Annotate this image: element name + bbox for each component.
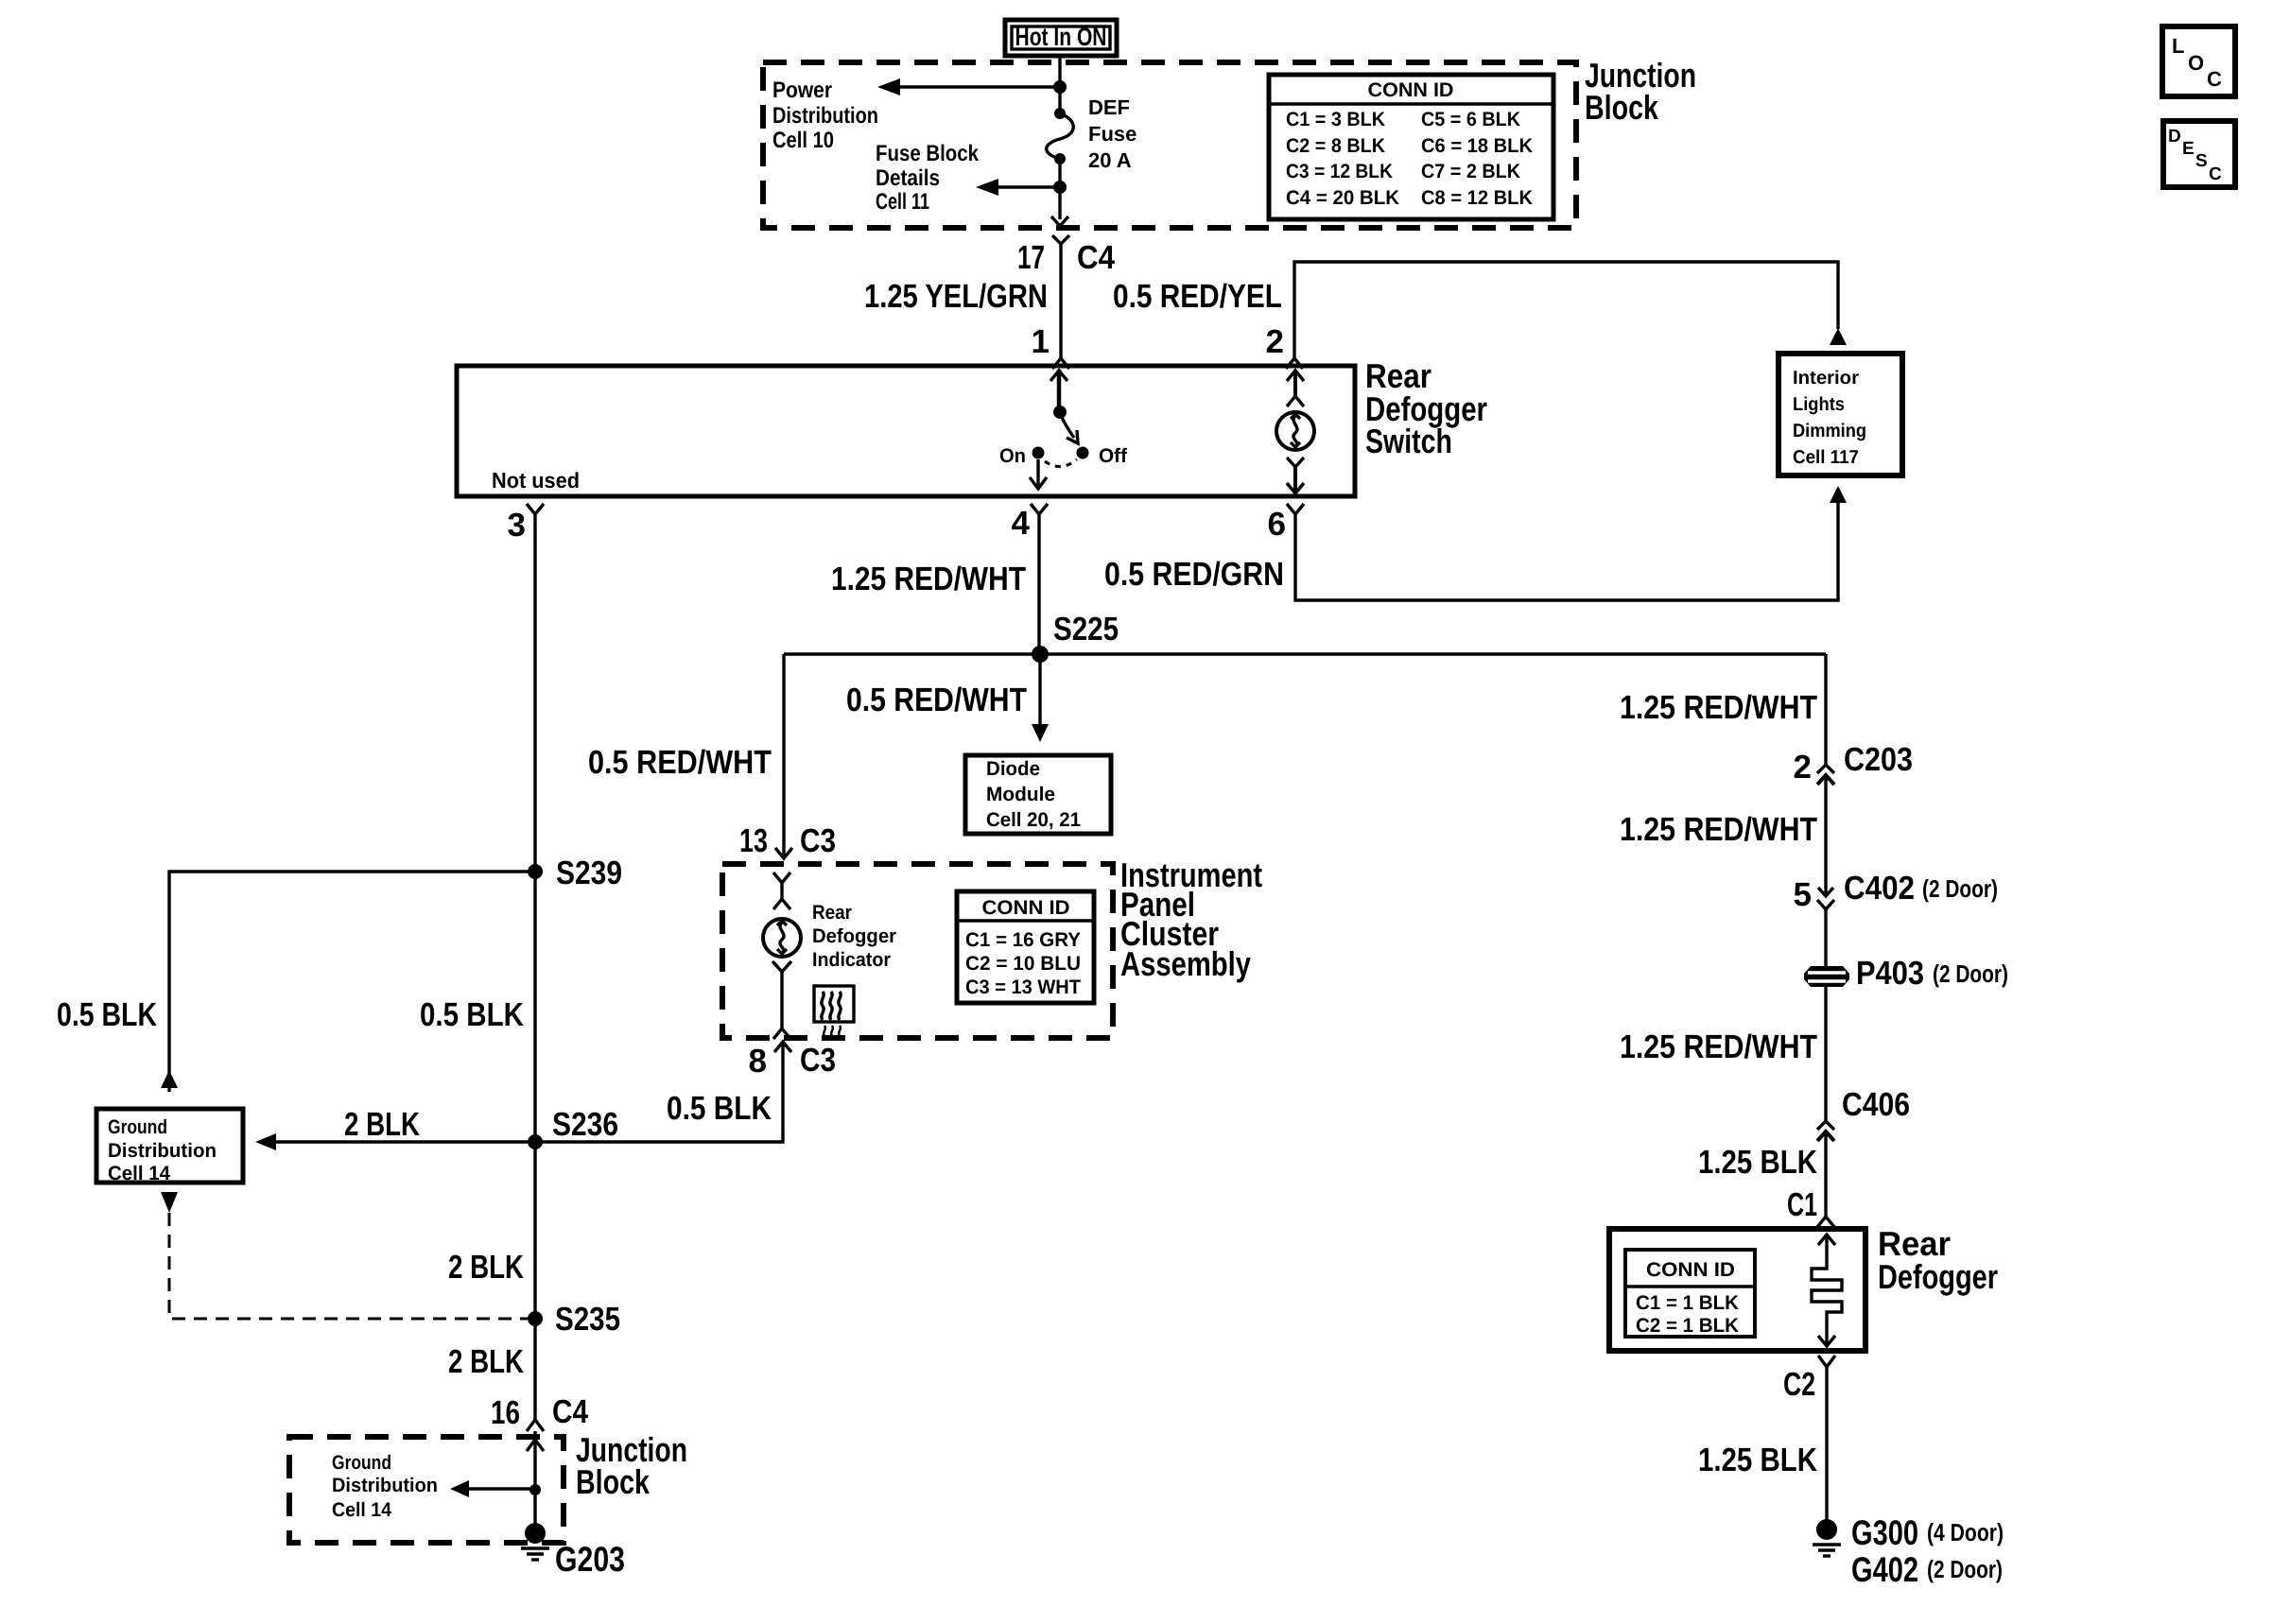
power tag "Hot In ON" bbox=[1005, 20, 1117, 56]
wire: tap to power distribution arrow bbox=[896, 85, 1060, 88]
wire: pin 2 riser and top run to interior lights bbox=[1294, 262, 1838, 358]
node S239 bbox=[528, 864, 543, 879]
svg-text:Block: Block bbox=[1585, 88, 1659, 127]
svg-text:CONN ID: CONN ID bbox=[982, 897, 1070, 919]
svg-text:4: 4 bbox=[1012, 505, 1031, 542]
wire: S225 bus bbox=[784, 652, 1826, 655]
wire: fuse to fuse block details tap bbox=[1058, 159, 1061, 219]
svg-text:1.25 RED/WHT: 1.25 RED/WHT bbox=[1620, 1028, 1817, 1065]
connector 8 C3 bbox=[749, 1042, 836, 1080]
svg-text:1: 1 bbox=[1032, 323, 1050, 360]
svg-text:1.25 BLK: 1.25 BLK bbox=[1698, 1144, 1817, 1181]
svg-text:CONN ID: CONN ID bbox=[1646, 1259, 1735, 1281]
wire: S225 right branch down to C203 bbox=[1824, 654, 1827, 765]
svg-text:O: O bbox=[2188, 51, 2204, 75]
svg-text:3: 3 bbox=[508, 507, 526, 544]
label Fuse Block Details Cell 11 bbox=[876, 141, 980, 215]
svg-text:Dimming: Dimming bbox=[1793, 421, 1866, 441]
svg-text:2 BLK: 2 BLK bbox=[344, 1106, 420, 1143]
svg-text:16: 16 bbox=[491, 1394, 520, 1431]
svg-text:E: E bbox=[2182, 139, 2195, 159]
cluster pin13 connector pair bbox=[773, 872, 790, 909]
connector 16 C4 fork bbox=[527, 1420, 544, 1431]
wire: C4 pin16 into junction block to ground bbox=[533, 1431, 536, 1528]
svg-text:D: D bbox=[2168, 127, 2181, 147]
svg-text:17: 17 bbox=[1017, 239, 1045, 276]
svg-text:1.25 BLK: 1.25 BLK bbox=[1698, 1442, 1817, 1478]
svg-text:Distribution: Distribution bbox=[108, 1140, 217, 1162]
rear defogger indicator lamp bbox=[763, 919, 801, 957]
pin 4 fork bbox=[1031, 504, 1048, 514]
arrow into wire from interior lights (top) bbox=[1830, 328, 1847, 345]
wire: C2 down to ground bbox=[1825, 1367, 1828, 1522]
wire: C406 to rear defogger C1 bbox=[1824, 1133, 1827, 1217]
arrow to Fuse Block Details bbox=[976, 179, 998, 196]
svg-text:Ground: Ground bbox=[108, 1116, 167, 1138]
svg-text:Block: Block bbox=[576, 1462, 651, 1501]
svg-text:Off: Off bbox=[1099, 445, 1128, 467]
connector 5 C402 bbox=[1794, 870, 1998, 919]
svg-text:Cell 117: Cell 117 bbox=[1793, 447, 1859, 468]
diode module box bbox=[965, 755, 1111, 834]
svg-text:On: On bbox=[999, 445, 1026, 467]
pin 6 fork bbox=[1287, 504, 1304, 514]
wire: C402 to P403 bbox=[1824, 919, 1827, 967]
ground G300/G402 bbox=[1813, 1513, 2004, 1589]
svg-text:1.25 RED/WHT: 1.25 RED/WHT bbox=[1620, 811, 1817, 848]
DESC reference box bbox=[2163, 121, 2235, 187]
label Junction Block (top) bbox=[1585, 56, 1696, 127]
node: fuse block details tap bbox=[1053, 181, 1067, 194]
conn id table (junction block) bbox=[1269, 75, 1553, 219]
label Rear Defogger Switch bbox=[1365, 356, 1487, 460]
svg-text:S225: S225 bbox=[1053, 611, 1119, 648]
svg-text:Distribution: Distribution bbox=[772, 103, 878, 129]
svg-text:C8 = 12 BLK: C8 = 12 BLK bbox=[1421, 187, 1533, 209]
svg-text:(2 Door): (2 Door) bbox=[1927, 1555, 2003, 1583]
svg-text:C1 = 3 BLK: C1 = 3 BLK bbox=[1286, 109, 1385, 130]
svg-text:S235: S235 bbox=[555, 1301, 620, 1338]
wire: S225 left branch down to cluster pin 13 bbox=[782, 654, 785, 858]
svg-text:5: 5 bbox=[1794, 876, 1812, 913]
switch pin1 internal arrow bbox=[1050, 370, 1067, 411]
svg-text:C3 = 12 BLK: C3 = 12 BLK bbox=[1286, 161, 1393, 182]
svg-text:Module: Module bbox=[986, 784, 1055, 805]
svg-text:0.5 BLK: 0.5 BLK bbox=[667, 1090, 772, 1127]
svg-text:S: S bbox=[2195, 151, 2208, 171]
svg-text:C2 = 8 BLK: C2 = 8 BLK bbox=[1286, 135, 1385, 157]
svg-text:Interior: Interior bbox=[1793, 368, 1859, 389]
arrow into cluster pin 8 bbox=[774, 1042, 791, 1052]
connector 2 C203 bbox=[1794, 741, 1913, 786]
svg-text:DEF: DEF bbox=[1088, 95, 1130, 119]
arrowhead leaving junction block bbox=[1051, 216, 1068, 226]
svg-text:Power: Power bbox=[772, 78, 832, 103]
label Rear Defogger Indicator bbox=[812, 902, 896, 971]
svg-text:0.5 BLK: 0.5 BLK bbox=[420, 996, 524, 1033]
svg-text:Fuse: Fuse bbox=[1088, 122, 1136, 146]
svg-text:C: C bbox=[2209, 164, 2222, 184]
wire: S225 down to diode module bbox=[1038, 654, 1041, 726]
arrow into diode module bbox=[1032, 724, 1049, 742]
switch lamp branch (pin2 to pin6) bbox=[1287, 370, 1304, 406]
svg-text:2 BLK: 2 BLK bbox=[448, 1249, 524, 1286]
svg-text:Indicator: Indicator bbox=[812, 949, 891, 971]
svg-text:(4 Door): (4 Door) bbox=[1927, 1518, 2004, 1546]
arrow into cluster pin 13 bbox=[775, 848, 792, 858]
arrow to ground distribution (up) bbox=[161, 1070, 178, 1088]
node S235 bbox=[528, 1311, 543, 1326]
connector 13 C3 bbox=[739, 822, 836, 859]
svg-text:0.5 RED/WHT: 0.5 RED/WHT bbox=[846, 682, 1027, 718]
wire: P403 to C406 bbox=[1824, 987, 1827, 1121]
svg-text:L: L bbox=[2172, 34, 2184, 58]
LOC reference box bbox=[2162, 26, 2235, 96]
svg-text:1.25 RED/WHT: 1.25 RED/WHT bbox=[1620, 689, 1817, 726]
svg-text:Assembly: Assembly bbox=[1120, 944, 1251, 983]
svg-text:C402: C402 bbox=[1844, 870, 1915, 907]
defogger grid element bbox=[1812, 1235, 1842, 1346]
conn id table (cluster) bbox=[957, 891, 1094, 1003]
svg-text:C5 = 6 BLK: C5 = 6 BLK bbox=[1421, 109, 1520, 130]
svg-text:G203: G203 bbox=[555, 1540, 625, 1579]
svg-text:P403: P403 bbox=[1856, 955, 1924, 992]
wire: Hot In ON down to fuse bbox=[1058, 56, 1061, 113]
svg-text:Cell 14: Cell 14 bbox=[108, 1163, 170, 1184]
svg-text:C3: C3 bbox=[800, 822, 836, 859]
wire: C203 to C402 bbox=[1824, 777, 1827, 896]
rear defogger box bbox=[1609, 1224, 1998, 1351]
label DEF Fuse 20 A bbox=[1088, 95, 1136, 172]
svg-text:13: 13 bbox=[739, 822, 768, 859]
svg-text:8: 8 bbox=[749, 1043, 767, 1080]
svg-text:C: C bbox=[2207, 67, 2222, 91]
rear defogger switch box bbox=[457, 366, 1355, 496]
svg-text:Diode: Diode bbox=[986, 758, 1040, 780]
defogger indicator icon bbox=[814, 986, 854, 1036]
label Power Distribution Cell 10 bbox=[772, 78, 878, 153]
switch Off contact bbox=[1077, 447, 1089, 459]
svg-text:Cell 11: Cell 11 bbox=[876, 189, 929, 215]
svg-text:C1 = 16 GRY: C1 = 16 GRY bbox=[965, 929, 1081, 951]
arrow to Power Distribution bbox=[877, 78, 900, 95]
connector C1 fork bbox=[1817, 1217, 1834, 1227]
fuse DEF 20A bbox=[1047, 108, 1074, 164]
svg-text:Fuse Block: Fuse Block bbox=[876, 141, 980, 166]
junction block (top) dashed box bbox=[763, 62, 1576, 228]
switch On contact bbox=[1032, 447, 1045, 459]
svg-text:2: 2 bbox=[1266, 323, 1284, 360]
svg-text:C3: C3 bbox=[800, 1042, 836, 1079]
node S236 bbox=[528, 1134, 543, 1149]
switch pivot bbox=[1053, 406, 1067, 419]
svg-text:C3 = 13 WHT: C3 = 13 WHT bbox=[965, 976, 1081, 998]
dashed link below ground distribution to S235 bbox=[161, 1192, 528, 1319]
wire: C4 pin17 down to switch pin 1 bbox=[1059, 244, 1062, 358]
interior lights dimming box bbox=[1778, 354, 1902, 475]
connector 17 C4 bbox=[1017, 235, 1115, 276]
svg-text:Switch: Switch bbox=[1365, 422, 1452, 460]
svg-text:1.25 YEL/GRN: 1.25 YEL/GRN bbox=[864, 278, 1048, 315]
switch lever to Off bbox=[1061, 416, 1078, 443]
svg-text:G300: G300 bbox=[1851, 1513, 1918, 1552]
connector C406 bbox=[1817, 1086, 1910, 1141]
wire: tap to fuse block details arrow bbox=[995, 185, 1060, 188]
svg-text:C406: C406 bbox=[1842, 1086, 1910, 1123]
svg-text:C4: C4 bbox=[552, 1393, 588, 1430]
wire: pin3 down through S239,S236,S235 to C4 pin16 bbox=[533, 514, 536, 1420]
svg-text:C1 = 1 BLK: C1 = 1 BLK bbox=[1636, 1292, 1739, 1314]
svg-text:C7 = 2 BLK: C7 = 2 BLK bbox=[1421, 161, 1520, 182]
svg-text:2: 2 bbox=[1794, 749, 1812, 786]
arrow up inside junction block bbox=[527, 1440, 544, 1451]
instrument panel cluster dashed box bbox=[722, 864, 1113, 1038]
svg-text:S239: S239 bbox=[556, 855, 622, 891]
svg-text:Details: Details bbox=[876, 165, 940, 191]
grommet P403 bbox=[1804, 955, 2008, 992]
svg-text:6: 6 bbox=[1268, 506, 1286, 543]
svg-text:Rear: Rear bbox=[812, 902, 852, 924]
label Ground Distribution Cell 14 (in junction block) bbox=[332, 1452, 438, 1521]
connector C2 fork bbox=[1818, 1356, 1835, 1367]
svg-text:G402: G402 bbox=[1851, 1550, 1918, 1589]
svg-text:C4: C4 bbox=[1077, 239, 1115, 276]
pin 3 fork bbox=[527, 504, 544, 514]
svg-text:Distribution: Distribution bbox=[332, 1475, 438, 1496]
svg-text:Lights: Lights bbox=[1793, 394, 1845, 415]
svg-text:C203: C203 bbox=[1844, 741, 1913, 778]
svg-text:S236: S236 bbox=[552, 1106, 618, 1143]
svg-text:Not used: Not used bbox=[492, 468, 580, 492]
ground distribution tap inside junction block bbox=[450, 1480, 541, 1497]
label Instrument Panel Cluster Assembly bbox=[1120, 855, 1262, 983]
conn id table (rear defogger) bbox=[1625, 1250, 1755, 1337]
ground distribution box (left) bbox=[96, 1109, 243, 1184]
wire: S236 left to ground distribution arrow bbox=[272, 1140, 535, 1143]
svg-text:20 A: 20 A bbox=[1088, 148, 1132, 172]
svg-text:C4 = 20 BLK: C4 = 20 BLK bbox=[1286, 187, 1399, 209]
pin 1 connector fork bbox=[1052, 358, 1069, 369]
label Junction Block (bottom) bbox=[576, 1430, 687, 1501]
switch illumination lamp bbox=[1276, 412, 1314, 450]
svg-text:C2 = 1 BLK: C2 = 1 BLK bbox=[1636, 1315, 1739, 1337]
ground G203 bbox=[521, 1523, 625, 1579]
svg-text:0.5 RED/YEL: 0.5 RED/YEL bbox=[1113, 278, 1282, 315]
svg-text:0.5 RED/GRN: 0.5 RED/GRN bbox=[1104, 556, 1284, 593]
dashed arc On-Off bbox=[1045, 459, 1077, 467]
svg-text:C1: C1 bbox=[1787, 1186, 1817, 1223]
svg-text:Defogger: Defogger bbox=[1878, 1257, 1998, 1296]
svg-text:(2 Door): (2 Door) bbox=[1922, 874, 1998, 903]
wire: pin6 down, right, up to interior lights box bbox=[1295, 502, 1838, 600]
wire: S239 left and down toward ground distribution bbox=[169, 872, 535, 1092]
svg-text:1.25 RED/WHT: 1.25 RED/WHT bbox=[831, 561, 1026, 597]
svg-text:0.5 BLK: 0.5 BLK bbox=[57, 996, 157, 1033]
svg-text:2 BLK: 2 BLK bbox=[448, 1343, 524, 1380]
arrow to ground distribution (left) bbox=[255, 1133, 276, 1150]
switch On branch down arrow bbox=[1030, 459, 1047, 489]
svg-text:Ground: Ground bbox=[332, 1452, 391, 1474]
svg-text:C2: C2 bbox=[1783, 1366, 1815, 1403]
svg-text:Hot In ON: Hot In ON bbox=[1015, 23, 1107, 51]
svg-text:C2 = 10 BLU: C2 = 10 BLU bbox=[965, 953, 1081, 975]
svg-text:Cell 10: Cell 10 bbox=[772, 128, 834, 153]
lamp lower connector and exit arrow bbox=[1287, 458, 1304, 493]
svg-text:0.5 RED/WHT: 0.5 RED/WHT bbox=[588, 744, 772, 781]
wire: pin4 down to S225 bbox=[1037, 514, 1040, 654]
pin 2 connector fork bbox=[1286, 358, 1303, 369]
wire: S236 right and up to cluster pin 8 bbox=[535, 1042, 783, 1142]
svg-text:CONN ID: CONN ID bbox=[1368, 79, 1454, 101]
svg-text:C6 = 18 BLK: C6 = 18 BLK bbox=[1421, 135, 1533, 157]
svg-text:Defogger: Defogger bbox=[812, 925, 896, 947]
node: power distribution tap bbox=[1053, 80, 1067, 94]
junction block (bottom) dashed box bbox=[289, 1437, 564, 1543]
svg-text:(2 Door): (2 Door) bbox=[1933, 959, 2008, 988]
node S225 bbox=[1032, 646, 1049, 663]
lamp lower connector pair bbox=[772, 961, 791, 1039]
svg-text:Cell 14: Cell 14 bbox=[332, 1499, 391, 1521]
svg-text:Cell 20, 21: Cell 20, 21 bbox=[986, 809, 1081, 831]
arrow into interior lights (bottom) bbox=[1830, 486, 1847, 503]
